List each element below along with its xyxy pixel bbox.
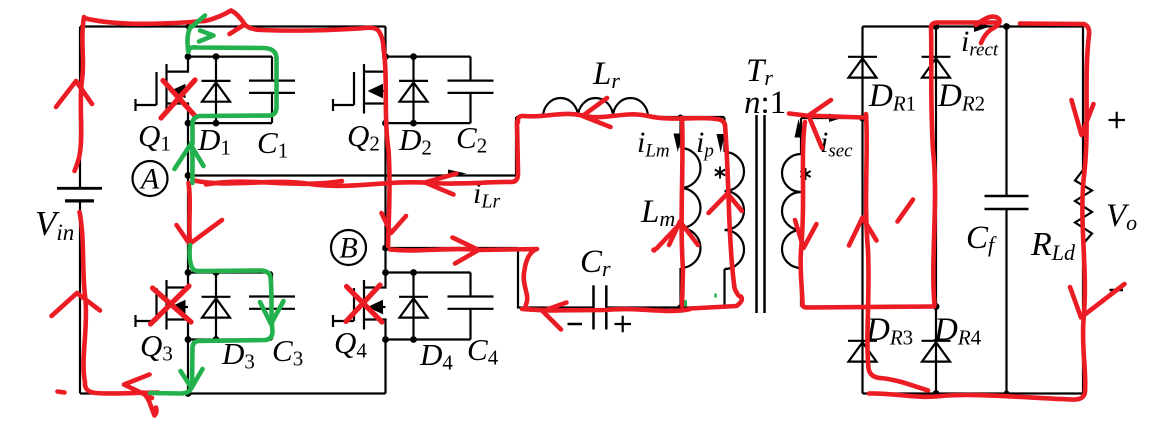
wire left vertical upper (Vin +) — [79, 27, 81, 189]
node D3 top junction — [213, 269, 220, 276]
capacitor Cr — [594, 285, 607, 329]
node D4 top junction — [410, 269, 417, 276]
wire green arrow head top — [192, 16, 214, 42]
wire green Q1 exit to top rail — [187, 27, 191, 53]
current path red arrow on Lr — [583, 98, 611, 127]
node D1 top junction — [213, 53, 220, 60]
current path red secondary bottom wire — [803, 305, 935, 308]
wire Q2 drain leg from top rail — [384, 27, 386, 57]
current path red top rail to corner — [1020, 24, 1089, 36]
node Q2 drain junction — [382, 53, 389, 60]
current path red mid rail overlap stroke — [206, 181, 342, 185]
current path red arrow up on left wire — [56, 81, 92, 107]
diode DR1 — [848, 57, 877, 78]
current path red arrow down right side upper — [1072, 100, 1094, 135]
current path red arrow left on isec — [809, 100, 832, 148]
wire Cr left plate to corner — [518, 248, 594, 308]
node Q4 drain junction — [382, 269, 389, 276]
current path red tick near branch2 — [898, 200, 914, 222]
arrow iLr on mid rail — [448, 170, 467, 178]
wire Q1 drain leg from top rail — [187, 27, 189, 57]
wire green arrow down on C3 branch — [260, 301, 284, 324]
current path red tick on Lm — [669, 222, 698, 246]
minus sign output — [1110, 289, 1124, 292]
current path red node A down leg — [189, 183, 191, 243]
wire primary top lead — [723, 118, 725, 153]
current path red top rail — [84, 11, 384, 49]
wire top rail — [80, 25, 386, 27]
wire Cf branch upper — [1005, 27, 1007, 197]
transistor Q4 — [333, 273, 386, 340]
node Cf bottom rail — [1004, 391, 1010, 397]
diode DR4 — [922, 341, 951, 362]
wire node B rail — [386, 247, 519, 249]
current path red tank top wire — [518, 114, 725, 125]
wire Q2 cell bottom rail — [386, 122, 471, 124]
wire Lr to primary top — [648, 116, 725, 118]
cross mark red X over Q4 — [347, 287, 383, 323]
node D2 top junction — [410, 53, 417, 60]
diode D2 — [399, 57, 428, 124]
wire Q2 cell top rail — [386, 55, 471, 57]
node D4 bottom junction — [410, 336, 417, 343]
current path red arrow left mid rail — [425, 174, 457, 195]
wire output right side lower — [1082, 244, 1084, 394]
capacitor C3 — [249, 273, 295, 340]
wire Q1 cell bottom rail — [188, 122, 272, 124]
wire output right side upper — [1082, 27, 1084, 171]
node Q1 drain junction — [185, 53, 192, 60]
current path red B rail to corner — [390, 249, 556, 311]
current path red arrow up lower left wire — [52, 293, 101, 316]
wire green Q1 cell loop — [188, 47, 277, 144]
current path red arrow down right side lower — [1070, 284, 1125, 318]
node bottom rail Q3 leg — [185, 390, 192, 397]
wire secondary top to rectifier — [801, 117, 863, 119]
node secondary bottom junction — [933, 303, 940, 310]
current path red mid rail A — [194, 122, 518, 186]
capacitor C2 — [448, 57, 494, 124]
wire output top rail — [863, 25, 1084, 27]
node Q3 drain junction — [185, 269, 192, 276]
current path red right side down — [1082, 35, 1089, 391]
node Q2 source junction — [382, 120, 389, 127]
current path red primary side down — [690, 125, 742, 309]
wire green arrow up near node A — [175, 145, 204, 170]
minus sign Cr — [568, 323, 583, 326]
green speck near primary bottom — [714, 295, 717, 297]
wire output bottom rail — [863, 392, 1084, 394]
arrow isec up on secondary lead — [795, 119, 804, 138]
current path red arrow check on secondary — [795, 220, 817, 248]
capacitor C4 — [448, 273, 494, 340]
current path red branch2 up — [931, 23, 996, 306]
current path red stray tick bottom left — [58, 392, 65, 393]
wire Q4 cell top rail — [386, 271, 471, 273]
wire Q2 source through crossing down to node B — [384, 123, 386, 272]
diode D1 — [202, 57, 231, 124]
node Q1 source junction — [185, 120, 192, 127]
wire secondary bottom lead — [800, 268, 802, 307]
wire Q4 cell bottom rail — [386, 338, 471, 340]
arrow irect on top rail — [974, 21, 991, 33]
node A circle — [133, 161, 168, 196]
transistor Q2 — [333, 57, 386, 124]
battery Vin — [57, 188, 102, 201]
node secondary top junction — [859, 115, 866, 122]
cross mark red X over Q1 — [163, 81, 196, 118]
wire tank bottom to Cr right plate — [606, 306, 724, 308]
wire Q1 source to node A — [187, 123, 189, 175]
transformer primary winding — [725, 152, 745, 269]
wire Q3 cell bottom rail — [188, 338, 272, 340]
plus sign output — [1109, 112, 1126, 128]
wire green Q3 entry from node A leg — [190, 245, 273, 385]
wire Cf branch lower — [1005, 209, 1007, 394]
wire left vertical lower (Vin -) — [79, 201, 81, 394]
cross mark red X over Q3 — [153, 288, 192, 322]
svg-text:A: A — [139, 163, 160, 196]
transformer secondary winding — [782, 154, 801, 268]
svg-text:B: B — [339, 232, 357, 265]
wire to Lr coil — [516, 116, 543, 118]
star primary dot mark — [715, 167, 725, 179]
wire green curl left on bottom rail — [150, 385, 192, 394]
wire green arrow down to bottom rail — [181, 369, 203, 388]
transistor Q1 — [136, 57, 189, 124]
inductor Lr — [543, 98, 648, 117]
node D2 bottom junction — [410, 120, 417, 127]
current path red arrow left bottom rail — [124, 375, 152, 399]
node B junction — [382, 245, 389, 252]
wire Q3 source to bottom rail — [187, 340, 189, 394]
node Lm top — [678, 115, 684, 121]
current path red isec wire — [789, 114, 864, 118]
capacitor Cf — [985, 196, 1029, 209]
wire secondary bottom to rectifier branch2 — [801, 305, 936, 307]
wire rectifier branch2 vertical — [935, 27, 937, 394]
current path red secondary winding down — [801, 122, 805, 305]
current path red branch1 up — [866, 114, 928, 391]
arrow ip down — [717, 134, 726, 153]
current path red below battery — [80, 212, 159, 394]
node A junction — [185, 172, 192, 179]
current path red output bottom rail — [869, 391, 1085, 400]
current path red arrow left at Cr — [543, 303, 567, 330]
current path red arrow up on primary — [709, 194, 743, 214]
current path red tank bottom wire — [522, 309, 690, 311]
wire green stem to node A — [192, 143, 193, 183]
green speck near Lm bottom — [684, 302, 687, 306]
wire Q1 cell top rail — [188, 55, 272, 57]
diode DR3 — [848, 341, 877, 362]
diode D3 — [202, 273, 231, 340]
arrow iLm down — [674, 134, 683, 153]
wire primary bottom lead — [723, 269, 725, 308]
transistor Q3 — [136, 273, 189, 340]
node D3 bottom junction — [213, 336, 220, 343]
current path red left wire down — [75, 17, 85, 171]
wire mid rail corner up to Lr — [515, 117, 517, 176]
node Q4 source junction — [382, 336, 389, 343]
current path red arrow lower leg on top rail — [230, 25, 245, 35]
node A wire junction to Q3 — [187, 176, 189, 273]
green annotation paths — [150, 16, 716, 394]
node Lm bottom — [677, 304, 683, 310]
capacitor C1 — [249, 57, 295, 124]
current path red B leg down — [384, 48, 390, 246]
wire rectifier branch1 vertical — [861, 27, 863, 394]
diode D4 — [399, 273, 428, 340]
plus sign Cr — [615, 316, 632, 332]
node D1 bottom junction — [213, 120, 220, 127]
wire bottom rail — [80, 392, 386, 394]
current path red arrow down on A leg — [177, 220, 223, 244]
node branch2 bottom rail — [933, 390, 940, 397]
current path red tail bottom — [143, 393, 157, 416]
resistor RLd — [1075, 170, 1092, 244]
current path red dot end of Lm tail — [651, 247, 657, 253]
current path red Lm branch down — [682, 118, 683, 306]
wire Lm top lead — [679, 118, 681, 149]
wire Q3 cell top rail — [188, 271, 272, 273]
transformer core — [757, 115, 765, 313]
current path red arrow up on branch1 — [849, 218, 877, 246]
current path red arrow right on B rail — [453, 238, 479, 264]
node B circle — [331, 230, 366, 265]
node Q3 source junction — [185, 336, 192, 343]
arrow isec right on wire — [829, 114, 843, 123]
star secondary dot mark — [800, 168, 810, 180]
diode DR2 — [922, 57, 951, 78]
current path red flourish at irect — [976, 17, 1000, 43]
wire Lm bottom lead — [679, 268, 681, 308]
svg-text:n:1: n:1 — [744, 85, 786, 121]
wire secondary top lead — [800, 118, 802, 154]
node branch2 top rail — [933, 23, 940, 30]
wire node A mid rail — [188, 174, 516, 176]
node top rail Q1 leg — [185, 24, 190, 29]
inductor Lm — [681, 148, 701, 268]
node Cf top rail — [1003, 23, 1010, 30]
current path red arrow down on B leg — [382, 213, 407, 233]
wire Q4 source to bottom rail — [384, 340, 386, 394]
current path red tail with dot on Lm — [657, 226, 679, 249]
